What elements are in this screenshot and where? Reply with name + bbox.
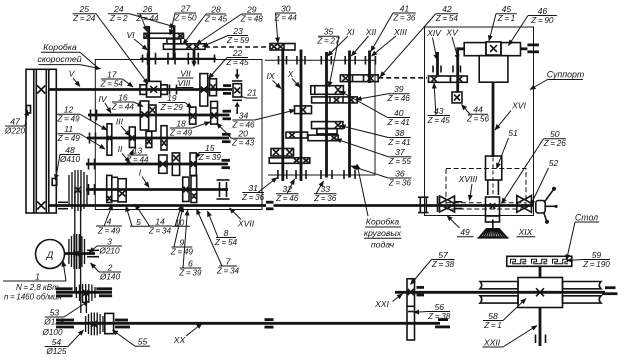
arrow above gear 21: [236, 69, 238, 75]
svg-text:19: 19: [167, 93, 177, 103]
svg-text:52: 52: [549, 158, 559, 168]
label 44 Z56: [462, 105, 490, 124]
label XVI: [495, 101, 527, 131]
label 58 Z1: [483, 299, 526, 330]
label 48 D410: [56, 145, 81, 180]
svg-text:44: 44: [473, 105, 483, 115]
svg-text:Z = 54: Z = 54: [214, 238, 238, 247]
dash link on II: [180, 162, 191, 164]
shaft X: [300, 50, 303, 182]
gear 32 long bar IX-X: [269, 158, 310, 164]
pulley 55 rect: [105, 313, 114, 333]
svg-text:Ø125: Ø125: [43, 317, 64, 326]
coupling on shaft XVII: [266, 201, 274, 204]
svg-text:21: 21: [246, 88, 257, 98]
svg-text:Z = 38: Z = 38: [431, 260, 455, 269]
svg-text:18: 18: [176, 118, 186, 128]
svg-text:24: 24: [113, 4, 124, 14]
svg-text:25: 25: [78, 4, 89, 14]
label 21: [246, 88, 257, 98]
svg-text:XIX: XIX: [518, 227, 533, 237]
gear 15 Z39 on II: [190, 153, 196, 176]
gear on II a: [159, 155, 167, 173]
tick gear 56: [408, 311, 414, 313]
label VII: [178, 69, 194, 79]
gear 35 Z27 bar on XI: [311, 86, 344, 95]
label 23 Z59: [203, 26, 250, 47]
svg-text:6: 6: [188, 258, 193, 268]
worm gear 58 box: [518, 278, 563, 308]
bearing ticks tops of IX..XIII: [278, 56, 280, 65]
pulley tab right: [52, 178, 57, 185]
label 8 Z54: [208, 211, 238, 247]
svg-text:9: 9: [179, 237, 184, 247]
label VI: [126, 30, 147, 50]
pulley 3 mark: [74, 250, 80, 256]
clutch bar XI-XII-XIII: [340, 75, 378, 82]
label 6 Z39: [178, 210, 202, 277]
svg-text:Z = 90: Z = 90: [530, 16, 554, 25]
pulley 54 block on shaft XX: [86, 313, 103, 336]
worm wheel left piece: [480, 282, 518, 304]
svg-text:Z = 50: Z = 50: [173, 13, 197, 22]
label 15 Z39: [196, 143, 222, 162]
bearing frame before clutch: [418, 197, 429, 212]
bearing dashes shaft III right: [222, 133, 231, 136]
svg-text:Z = 36: Z = 36: [388, 178, 412, 187]
feed gearbox frame edge: [374, 57, 376, 176]
gear on III mid-low: [146, 131, 152, 147]
label 55: [113, 330, 151, 347]
shaft XI: [325, 52, 328, 178]
shaft III: [87, 137, 229, 140]
label XVII: [230, 208, 255, 229]
svg-text:VIII: VIII: [178, 78, 192, 88]
gear 31 bar on IX: [271, 149, 294, 157]
svg-text:Ø220: Ø220: [4, 126, 25, 135]
svg-text:Z = 41: Z = 41: [387, 138, 410, 147]
label 20 Z43: [217, 123, 255, 148]
worm 45 box: [486, 42, 501, 55]
dashed line to support clutch: [378, 77, 427, 79]
spindle gear 50 Z26: [486, 197, 500, 222]
bearing shaft XVII right of pulley: [58, 201, 68, 203]
pulley 54 mark: [91, 321, 97, 327]
svg-text:II: II: [118, 144, 123, 154]
belt shaft I pulley to pulley 53: [74, 190, 76, 292]
svg-text:XII: XII: [365, 27, 377, 37]
label Support: [530, 70, 584, 90]
svg-text:47: 47: [10, 116, 21, 126]
label 57 Z38: [411, 250, 455, 285]
svg-text:42: 42: [442, 4, 452, 14]
bearing shaft IV left: [91, 110, 97, 121]
pulley 53 block on countershaft: [76, 284, 95, 303]
label 38 Z41: [340, 126, 411, 147]
gear 26 Z44 bar: [144, 33, 184, 38]
svg-text:31: 31: [248, 183, 258, 193]
svg-text:Z = 190: Z = 190: [582, 260, 610, 269]
svg-text:Z = 36: Z = 36: [392, 13, 416, 22]
bearing dashes countershaft right: [96, 287, 112, 290]
label 33 Z36: [313, 181, 337, 203]
label 28 Z45: [183, 4, 228, 44]
svg-text:п = 1460 об/мин: п = 1460 об/мин: [4, 293, 62, 302]
svg-text:48: 48: [65, 145, 75, 155]
svg-text:IV: IV: [98, 94, 107, 104]
gear on III right: [161, 126, 167, 150]
svg-text:Z = 49: Z = 49: [170, 247, 194, 256]
svg-text:Z = 59: Z = 59: [226, 36, 250, 45]
svg-text:Z = 44: Z = 44: [274, 13, 298, 22]
svg-text:Ø125: Ø125: [45, 347, 66, 356]
svg-text:58: 58: [488, 311, 498, 321]
gear 30 Z44 bar: [270, 44, 295, 51]
link block 51: [486, 156, 502, 180]
bearing dashes shaft IV right: [223, 110, 232, 113]
gear 57-56 block on XXI: [407, 279, 415, 340]
label 3 D210: [89, 236, 122, 255]
electric motor circle: [36, 240, 65, 269]
leader arrow for VII VIII: [193, 50, 196, 62]
gear 5 on XVII: [118, 179, 126, 202]
svg-text:Z = 1: Z = 1: [483, 321, 502, 330]
svg-text:Z = 49: Z = 49: [169, 128, 193, 137]
svg-text:VI: VI: [126, 30, 135, 40]
svg-text:Z = 27: Z = 27: [316, 37, 340, 46]
bevel box flange left: [140, 85, 147, 95]
label Korobka skorostei: [37, 42, 100, 69]
bearing dashes right of pulley 55: [115, 319, 128, 322]
bearing dashes countershaft left: [56, 287, 73, 290]
label 35 Z27: [316, 27, 340, 87]
label 27 Z50: [170, 3, 197, 35]
label 53 D125 D100: [43, 301, 88, 326]
gear 13 on III: [129, 127, 135, 148]
label 47 D220: [4, 110, 28, 135]
label 18 Z49: [169, 118, 210, 137]
label V: [69, 69, 80, 87]
svg-text:13: 13: [133, 145, 143, 155]
pulley on shaft I block: [69, 170, 87, 211]
label 50 Z26: [502, 129, 567, 203]
bar stack c on XI: [308, 135, 338, 141]
gear 22 Z45 on V: [200, 74, 208, 107]
svg-text:20: 20: [237, 129, 248, 139]
svg-text:XVI: XVI: [511, 101, 526, 111]
label 54 D125: [45, 330, 84, 356]
svg-text:16: 16: [118, 92, 128, 102]
clutch at right end of shaft I: [219, 182, 221, 197]
label 26 Z44: [135, 4, 159, 31]
shaft XV bent: [458, 49, 465, 92]
label 17 Z54: [100, 69, 133, 88]
cutter tool 49 fan: [478, 220, 509, 238]
gear 23 column: [210, 79, 217, 96]
shaft stub above clutch line: [173, 25, 176, 58]
label 25 Z24: [72, 4, 148, 84]
bearing ticks above XV: [453, 66, 461, 73]
label III: [116, 117, 130, 137]
label 52: [531, 158, 559, 206]
svg-text:Z = 38: Z = 38: [427, 312, 451, 321]
svg-text:Z = 54: Z = 54: [435, 14, 459, 23]
label Stol: [567, 213, 600, 261]
svg-text:3: 3: [107, 236, 112, 246]
label XXI: [374, 294, 402, 309]
label XIV: [426, 28, 442, 60]
bearing dashes shaft V right: [223, 84, 231, 87]
bearing dashes motor shaft right: [87, 249, 99, 251]
dashed guide line through clutches: [446, 202, 484, 204]
belt 53 to 54: [80, 292, 82, 313]
svg-text:Z = 34: Z = 34: [148, 226, 172, 235]
gear 44 Z56 box: [452, 92, 462, 103]
motor shaft: [64, 252, 95, 255]
svg-text:Z = 44: Z = 44: [135, 14, 159, 23]
gear 20 Z43 block on IV: [211, 101, 218, 124]
table gear 59 Z190 with T-slots: [507, 256, 572, 266]
bearing shaft II left: [89, 159, 95, 170]
svg-text:51: 51: [508, 128, 518, 138]
coupling at crank: [527, 44, 539, 47]
label 19 Z29: [159, 93, 193, 112]
svg-text:1: 1: [35, 272, 40, 282]
label 12 Z49: [56, 105, 107, 130]
reversing bevel clutch right of spindle: [517, 196, 532, 213]
svg-text:Z = 44: Z = 44: [111, 102, 135, 111]
clutch bar XV: [450, 76, 467, 82]
svg-text:Z = 36: Z = 36: [313, 194, 337, 203]
label 51: [497, 128, 518, 169]
handwheel on shaft XIX: [536, 187, 558, 224]
svg-text:33: 33: [320, 184, 330, 194]
label XIX: [517, 227, 536, 237]
bearing ticks above XIV: [433, 66, 441, 73]
label 5: [126, 206, 150, 227]
clutch ticks on VII-VIII: [147, 53, 149, 65]
svg-text:XX: XX: [173, 335, 186, 345]
label 7 Z34: [197, 209, 240, 275]
svg-text:57: 57: [438, 250, 449, 260]
countershaft: [56, 291, 112, 294]
belt 47-48 inner lines: [33, 69, 35, 213]
label 41 Z36: [371, 3, 416, 51]
shaft XXII lower: [539, 308, 542, 347]
svg-text:Z = 56: Z = 56: [466, 115, 490, 124]
svg-text:22: 22: [232, 48, 243, 58]
svg-text:Z = 54: Z = 54: [100, 79, 124, 88]
svg-text:XVIII: XVIII: [458, 174, 478, 184]
bevel box on shaft V-VI: [147, 81, 161, 97]
gear 6 on I: [183, 177, 189, 201]
label IX: [266, 71, 281, 89]
svg-text:Z = 41: Z = 41: [387, 118, 410, 127]
svg-text:38: 38: [395, 128, 405, 138]
svg-text:27: 27: [180, 3, 192, 13]
svg-text:55: 55: [138, 337, 148, 347]
svg-text:14: 14: [155, 216, 165, 226]
clutch bar XIV: [429, 76, 451, 82]
svg-text:56: 56: [434, 302, 444, 312]
label 14 Z34: [135, 204, 172, 235]
label 10: [172, 205, 190, 227]
gear bar on X mid: [286, 132, 308, 138]
svg-text:35: 35: [324, 27, 334, 37]
svg-text:30: 30: [281, 3, 291, 13]
svg-text:45: 45: [502, 4, 512, 14]
dashed box XVIII: [446, 169, 526, 210]
label 34 Z46: [231, 110, 295, 129]
svg-text:XV: XV: [445, 28, 459, 38]
worm shaft to coupling: [521, 47, 528, 50]
bearing shaft I left: [89, 184, 95, 195]
shaft V: [49, 88, 232, 91]
svg-text:Z = 49: Z = 49: [97, 226, 121, 235]
label XV: [445, 28, 459, 61]
bearing dashes shaft XX left: [56, 319, 74, 322]
shaft XII: [348, 51, 351, 178]
svg-text:круговых: круговых: [364, 228, 402, 238]
svg-text:IX: IX: [266, 71, 274, 81]
label I: [139, 168, 149, 188]
label 46 Z90: [509, 6, 557, 46]
gear 27 Z50 bar: [167, 39, 181, 44]
svg-text:Z = 2: Z = 2: [109, 14, 128, 23]
pulley on shaft I mark: [75, 187, 82, 194]
bar stack a on XI: [312, 122, 343, 129]
svg-text:23: 23: [232, 26, 243, 36]
shaft VI vertical: [147, 26, 150, 82]
shaft XXI: [395, 291, 605, 294]
svg-text:8: 8: [224, 228, 229, 238]
svg-text:Z = 29: Z = 29: [160, 103, 184, 112]
plate below gear 21: [232, 99, 242, 101]
gear 16b on IV: [149, 105, 156, 131]
gear bar XI-XII lower: [312, 97, 358, 103]
svg-text:Ø410: Ø410: [59, 155, 80, 164]
gear 19 Z29 on IV: [190, 107, 196, 124]
shaft XVII left part: [49, 204, 266, 207]
label 59 Z190: [567, 250, 610, 269]
svg-text:Коробка: Коробка: [366, 217, 400, 227]
label 13 Z44: [125, 145, 149, 164]
label XI: [328, 27, 356, 56]
label XVIII: [458, 174, 478, 201]
worm wheel 46 left bar: [464, 43, 486, 56]
label XX: [173, 324, 202, 346]
label 39 Z46: [356, 84, 410, 103]
label 37 Z55: [336, 139, 412, 166]
svg-text:Ø210: Ø210: [98, 246, 119, 255]
svg-text:Z = 36: Z = 36: [241, 193, 265, 202]
shaft XXII upper: [539, 266, 542, 277]
label Korobka krugovyh podach: [357, 164, 402, 250]
svg-text:12: 12: [64, 105, 74, 115]
svg-text:Z = 45: Z = 45: [427, 116, 451, 125]
svg-text:39: 39: [394, 84, 404, 94]
svg-text:49: 49: [460, 227, 470, 237]
pulley 47 mark: [37, 86, 45, 94]
label 24 Z2: [108, 4, 175, 27]
svg-text:XIII: XIII: [393, 27, 408, 37]
svg-text:Z = 44: Z = 44: [125, 155, 149, 164]
ticks at clutch left: [437, 196, 439, 212]
label 45 Z1: [489, 4, 517, 41]
svg-text:Z = 45: Z = 45: [204, 14, 228, 23]
dashed line in link 51: [492, 158, 494, 197]
pulley 53 mark: [83, 290, 89, 296]
label 30 Z44: [274, 3, 298, 43]
label 2 D140: [91, 262, 122, 281]
bar stack b on XI: [317, 129, 337, 134]
shaft XVI: [492, 82, 495, 157]
pulley tab left: [27, 106, 31, 114]
svg-text:15: 15: [205, 143, 215, 153]
svg-text:5: 5: [136, 217, 141, 227]
label 40 Z41: [340, 91, 410, 127]
crank housing box: [479, 56, 508, 82]
pulley block 3-2 on motor shaft: [69, 234, 85, 269]
svg-text:50: 50: [550, 129, 560, 139]
label X: [287, 69, 300, 88]
svg-text:VII: VII: [180, 69, 191, 79]
svg-text:XVII: XVII: [237, 219, 255, 229]
svg-text:X: X: [287, 69, 294, 79]
coupling right end of XXI: [605, 286, 616, 289]
label 56 Z38: [414, 302, 451, 321]
svg-text:26: 26: [142, 4, 153, 14]
shaft II: [86, 163, 228, 166]
label 32 Z46: [275, 179, 299, 203]
belt 47-48 outer loop: [26, 69, 56, 213]
gear 7 on XVII: [191, 176, 197, 203]
svg-text:46: 46: [538, 6, 548, 16]
svg-text:XIV: XIV: [426, 28, 442, 38]
label VIII: [176, 78, 194, 88]
svg-text:Ø140: Ø140: [99, 272, 120, 281]
worm wheel 46 right bar: [501, 43, 521, 56]
label 1 motor: [3, 261, 66, 302]
gear 4 on I: [107, 175, 112, 202]
label 36 Z36: [351, 166, 412, 187]
svg-text:XXII: XXII: [483, 338, 501, 348]
svg-text:17: 17: [107, 69, 118, 79]
bearing bottom rail of feed box: [268, 174, 375, 176]
gear block 11-12 on III: [107, 124, 112, 155]
reversing bevel clutch left of spindle: [440, 196, 455, 212]
label II: [118, 144, 130, 163]
speed gearbox frame: [95, 60, 262, 210]
label 29 Z48: [196, 4, 263, 44]
label 4 Z49: [96, 205, 122, 236]
svg-text:Z = 26: Z = 26: [543, 139, 567, 148]
bearing ticks bottoms of IX X XI XII: [277, 170, 279, 179]
bearing shaft III left: [90, 133, 96, 144]
shaft VII-VIII line: [140, 58, 216, 60]
shaft XVII right part: [274, 204, 534, 207]
label XII: [351, 27, 377, 56]
svg-text:Z = 46: Z = 46: [275, 194, 299, 203]
label 49: [447, 216, 474, 238]
bearing dashes shaft II right: [222, 159, 231, 162]
label 22 Z45: [209, 48, 250, 79]
svg-text:XXI: XXI: [374, 299, 389, 309]
worm wheel right piece: [563, 282, 602, 304]
svg-text:29: 29: [246, 4, 257, 14]
label 42 Z54: [380, 4, 458, 77]
label XIII: [372, 27, 408, 56]
